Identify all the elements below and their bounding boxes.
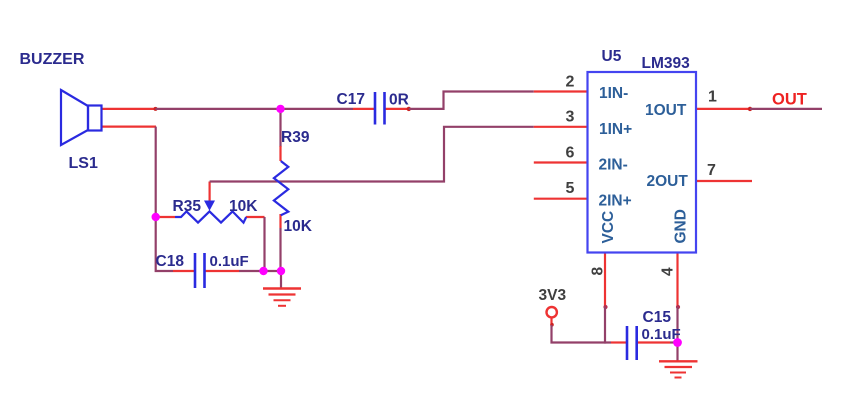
svg-text:C15: C15 <box>643 309 672 326</box>
svg-text:8: 8 <box>589 267 606 276</box>
node junction at C15 ground <box>673 338 682 347</box>
wire C15 right to ground junction <box>638 341 678 343</box>
svg-text:1IN-: 1IN- <box>599 85 628 102</box>
wire R35 right terminal down to junction <box>246 217 265 271</box>
wire net3 C18 right to ground junction <box>206 270 282 272</box>
wire net3 speaker bottom down and to C18 <box>101 127 194 271</box>
wire pin6 stub <box>534 161 588 163</box>
wire pin4 GND down <box>676 253 680 343</box>
svg-text:3: 3 <box>566 109 575 126</box>
svg-text:10K: 10K <box>229 198 258 215</box>
svg-text:VCC: VCC <box>600 211 617 244</box>
resistor R39 <box>274 161 288 215</box>
node junction at net1 and R39 <box>276 105 284 113</box>
wire pin8 VCC down <box>603 253 607 344</box>
node junction at R35 bottom <box>259 267 267 275</box>
wire pin5 stub <box>534 198 588 200</box>
svg-text:LS1: LS1 <box>69 155 98 172</box>
svg-text:6: 6 <box>566 144 575 161</box>
capacitor C18 <box>195 253 205 288</box>
op-amp U5 LM393 box <box>588 72 697 253</box>
wire R35 left terminal stub <box>156 216 175 218</box>
svg-text:5: 5 <box>566 180 575 197</box>
wire R39 bottom to ground junction <box>279 214 281 271</box>
wire 3V3 to C15 <box>550 318 626 343</box>
wire pin7 stub <box>696 180 752 182</box>
svg-text:C18: C18 <box>156 253 185 270</box>
wire pin1 to OUT <box>696 107 822 111</box>
svg-text:BUZZER: BUZZER <box>20 51 85 68</box>
svg-text:7: 7 <box>707 162 716 179</box>
capacitor C17 <box>375 92 385 125</box>
node junction at R39 bottom ground <box>277 267 285 275</box>
speaker LS1 <box>61 90 102 145</box>
svg-text:LM393: LM393 <box>642 55 691 72</box>
power port 3V3 <box>547 307 557 317</box>
svg-text:10K: 10K <box>284 218 313 235</box>
wire pot wiper to pin3 of U5 <box>210 127 588 201</box>
svg-text:1IN+: 1IN+ <box>599 121 632 138</box>
wire net1 speaker top to C17 <box>101 107 374 111</box>
svg-text:1OUT: 1OUT <box>645 102 687 119</box>
svg-text:GND: GND <box>673 209 690 243</box>
svg-text:2: 2 <box>566 74 575 91</box>
ground below R39 C18 <box>263 271 301 306</box>
wire R39 top connection <box>279 109 281 161</box>
svg-text:U5: U5 <box>602 48 622 65</box>
ground below C15 <box>659 343 698 378</box>
svg-text:0R: 0R <box>389 92 409 109</box>
svg-text:C17: C17 <box>337 91 365 108</box>
potentiometer R35 <box>175 201 246 223</box>
capacitor C15 <box>627 326 637 360</box>
svg-text:R39: R39 <box>281 129 310 146</box>
node junction at speaker bottom and R35 <box>152 213 160 221</box>
svg-text:2OUT: 2OUT <box>647 173 689 190</box>
svg-text:3V3: 3V3 <box>539 287 567 304</box>
svg-text:OUT: OUT <box>772 91 807 109</box>
svg-text:1: 1 <box>708 89 717 106</box>
svg-text:2IN-: 2IN- <box>599 157 628 174</box>
svg-text:0.1uF: 0.1uF <box>210 253 249 270</box>
svg-text:2IN+: 2IN+ <box>599 193 632 210</box>
wire net2 C17 to pin2 of U5 <box>386 92 589 112</box>
svg-text:4: 4 <box>660 267 677 276</box>
svg-text:R35: R35 <box>173 198 202 215</box>
